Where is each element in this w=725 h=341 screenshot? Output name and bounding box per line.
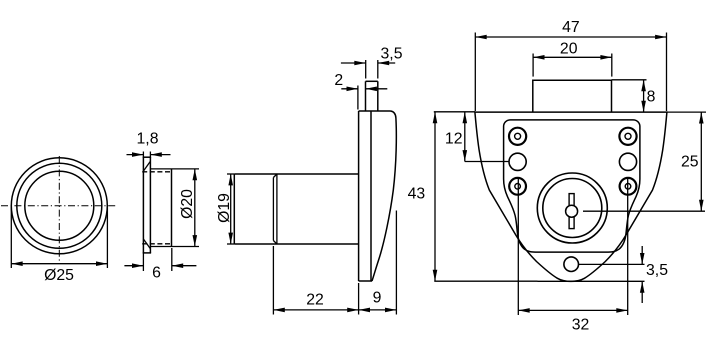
flange face line bbox=[358, 111, 360, 281]
top housing rect bbox=[533, 80, 612, 112]
cap inner circle bbox=[25, 171, 94, 240]
flange back curve bbox=[372, 111, 396, 281]
dim Ø19 bottom ext bbox=[227, 243, 234, 245]
cap face line bbox=[142, 157, 144, 253]
screw hole low-right inner bbox=[625, 184, 631, 190]
screw hole top-left inner bbox=[515, 133, 521, 139]
dim 20 ext right bbox=[611, 54, 613, 77]
dim 1,8 right tail bbox=[150, 154, 170, 156]
svg-text:32: 32 bbox=[572, 317, 590, 334]
flange bottom edge bbox=[359, 280, 372, 282]
svg-text:Ø20: Ø20 bbox=[179, 189, 196, 219]
dim 25 line bbox=[700, 112, 702, 211]
barrel groove left line bbox=[272, 178, 274, 241]
dim 20 line bbox=[533, 56, 612, 58]
dim 32 ext right bbox=[627, 177, 629, 315]
screw hole top-right outer bbox=[619, 128, 636, 145]
screw hole low-right outer bbox=[620, 178, 637, 195]
horizontal centerline bbox=[1, 205, 117, 207]
button top edge bbox=[366, 80, 378, 82]
cylinder inner circle bbox=[543, 179, 602, 238]
screw hole low-left outer bbox=[509, 178, 526, 195]
keyhole circle bbox=[566, 205, 578, 217]
dim 22 ext left bbox=[272, 246, 274, 315]
svg-text:20: 20 bbox=[560, 40, 578, 57]
cap bottom edge bbox=[143, 252, 151, 254]
dim 25 leader from keyhole bbox=[583, 210, 705, 212]
barrel left edge bbox=[233, 174, 235, 244]
flange inner line bbox=[370, 111, 372, 281]
cap top chamfer bbox=[143, 161, 150, 171]
hole mid-left bbox=[509, 153, 526, 170]
dim 3,5 upper shaft bbox=[641, 246, 643, 264]
flange top edge bbox=[359, 110, 391, 112]
screw hole low-left inner bbox=[515, 184, 521, 190]
dim 22/9 shared ext bbox=[358, 283, 360, 315]
dim 1,8 ext left bbox=[142, 152, 144, 158]
dim Ø25 extension left bbox=[10, 207, 12, 269]
svg-text:6: 6 bbox=[152, 265, 161, 282]
plate outline bbox=[475, 112, 667, 281]
dim 6 ext left bbox=[142, 253, 144, 271]
svg-text:2: 2 bbox=[334, 72, 343, 89]
cap outer circle bbox=[11, 158, 107, 254]
vertical centerline bbox=[58, 156, 60, 261]
dim 43 top ext (shared with view4) bbox=[434, 111, 475, 113]
dim Ø19 top ext bbox=[227, 173, 234, 175]
cap bottom chamfer bbox=[143, 239, 150, 249]
cap top edge bbox=[143, 156, 151, 158]
button left edge bbox=[365, 81, 367, 111]
svg-text:Ø25: Ø25 bbox=[44, 267, 74, 284]
svg-text:43: 43 bbox=[408, 186, 426, 203]
dim Ø25 extension right bbox=[106, 207, 108, 269]
svg-text:25: 25 bbox=[681, 154, 699, 171]
dim 20 ext left bbox=[532, 54, 534, 77]
bottom hole bbox=[564, 257, 579, 272]
svg-text:Ø19: Ø19 bbox=[216, 193, 233, 223]
dim 2 left tail bbox=[341, 88, 358, 90]
dim 32 ext left bbox=[517, 177, 519, 315]
svg-text:12: 12 bbox=[445, 131, 463, 148]
svg-text:3,5: 3,5 bbox=[646, 262, 668, 279]
dim 2 right tail bbox=[366, 88, 388, 90]
dim Ø25 line bbox=[11, 263, 107, 265]
dim 8 line bbox=[643, 80, 645, 112]
groove bottom chamfer bbox=[273, 241, 277, 245]
barrel bottom edge bbox=[234, 243, 358, 245]
hidden hole line top bbox=[142, 171, 171, 173]
button right edge bbox=[377, 81, 379, 111]
svg-text:8: 8 bbox=[647, 89, 656, 106]
dim 8 top ext bbox=[612, 79, 647, 81]
dim 6 left tail bbox=[124, 265, 143, 267]
dim 9 ext right bbox=[395, 211, 397, 315]
dim 47 ext right bbox=[666, 33, 668, 112]
dim 47 line bbox=[475, 36, 666, 38]
svg-text:1,8: 1,8 bbox=[137, 131, 159, 148]
cap body right edge bbox=[171, 169, 173, 247]
keyhole slot bbox=[569, 194, 574, 229]
dim 12 leader bbox=[465, 161, 509, 163]
hole mid-right bbox=[619, 153, 636, 170]
cap body bottom edge (also Ø20 extension) bbox=[150, 246, 199, 248]
screw hole top-right inner bbox=[625, 133, 631, 139]
cap back line bbox=[149, 157, 151, 253]
dim 43 bottom ext bbox=[434, 280, 537, 282]
dim 47 ext left bbox=[474, 33, 476, 112]
dim 43 line bbox=[434, 112, 436, 281]
dim Ø20 line bbox=[194, 169, 196, 247]
dim 3,5 right tail bbox=[378, 62, 395, 64]
inner plate outline bbox=[504, 120, 640, 252]
barrel groove right line bbox=[276, 174, 278, 244]
dim 3,5 ext right bbox=[377, 60, 379, 79]
dim 12 line bbox=[464, 112, 466, 162]
cap middle circle bbox=[17, 163, 102, 248]
cap body top edge (also Ø20 extension) bbox=[150, 168, 199, 170]
dim 9 line bbox=[359, 309, 397, 311]
dim 1,8 left tail bbox=[127, 154, 144, 156]
dim 1,8 ext right bbox=[149, 152, 151, 158]
groove top chamfer bbox=[273, 174, 277, 178]
svg-text:9: 9 bbox=[373, 290, 382, 307]
barrel top edge bbox=[234, 173, 358, 175]
dim 25 top ext bbox=[667, 111, 706, 113]
svg-text:3,5: 3,5 bbox=[381, 46, 403, 63]
svg-text:22: 22 bbox=[306, 292, 324, 309]
dim 3,5 left tail bbox=[341, 62, 366, 64]
svg-text:47: 47 bbox=[562, 19, 580, 36]
dim 3,5 ext left bbox=[365, 60, 367, 79]
dim 3,5 lower shaft bbox=[641, 281, 643, 303]
dim 3,5 lower leader bbox=[538, 280, 645, 282]
dim 6 ext right bbox=[171, 248, 173, 271]
dim Ø19 line bbox=[230, 174, 232, 244]
dim 22 line bbox=[273, 309, 358, 311]
dim 6 right tail bbox=[172, 265, 197, 267]
cylinder outer circle bbox=[537, 173, 607, 243]
hidden hole line bottom bbox=[142, 243, 171, 245]
dim 32 line bbox=[518, 309, 627, 311]
dim 2 ext left bbox=[357, 86, 359, 110]
dim 3,5 upper leader bbox=[579, 263, 645, 265]
screw hole top-left outer bbox=[509, 128, 526, 145]
